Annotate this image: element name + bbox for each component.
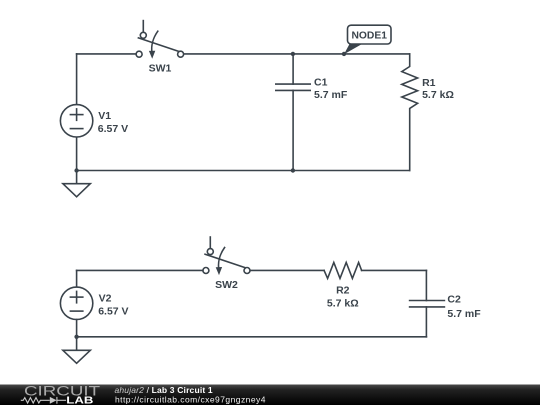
svg-text:V2: V2 bbox=[99, 292, 112, 304]
node junction dot ground 2 bbox=[74, 335, 78, 339]
wire: V2 bottom vertical bbox=[76, 320, 78, 351]
wire: top horizontal to SW2 bbox=[77, 269, 203, 271]
svg-text:R2: R2 bbox=[336, 284, 350, 296]
voltage source V1 bbox=[60, 105, 92, 137]
svg-text:C1: C1 bbox=[314, 76, 328, 88]
ground (circuit 2) bbox=[63, 350, 90, 363]
svg-text:NODE1: NODE1 bbox=[351, 31, 387, 42]
resistor R2 bbox=[324, 263, 362, 279]
capacitor C2 bbox=[410, 270, 445, 336]
svg-text:5.7 mF: 5.7 mF bbox=[447, 308, 481, 320]
wire: V1 top vertical bbox=[76, 54, 78, 105]
wire: SW1 to R1 top bbox=[184, 53, 410, 55]
svg-text:5.7 mF: 5.7 mF bbox=[314, 89, 348, 101]
switch SW2 bbox=[203, 237, 250, 275]
svg-text:R1: R1 bbox=[422, 77, 436, 89]
node junction dot C1 bottom bbox=[291, 168, 295, 172]
wire: top-left horizontal to SW1 bbox=[77, 53, 136, 55]
wire: R2 to C2 corner bbox=[362, 269, 427, 271]
wire: V1 bottom vertical bbox=[76, 137, 78, 183]
ground (circuit 1) bbox=[63, 184, 90, 197]
svg-text:SW2: SW2 bbox=[215, 279, 238, 291]
svg-text:http://circuitlab.com/cxe97gng: http://circuitlab.com/cxe97gngzney4 bbox=[115, 394, 266, 404]
node A dot under NODE1 bbox=[342, 52, 346, 56]
svg-text:5.7 kΩ: 5.7 kΩ bbox=[327, 298, 359, 310]
node junction dot ground 1 bbox=[74, 168, 78, 172]
wire: SW2 to R2 bbox=[250, 269, 324, 271]
voltage source V2 bbox=[60, 287, 92, 319]
svg-text:C2: C2 bbox=[447, 294, 461, 306]
wire: bottom of circuit 1 bbox=[77, 170, 410, 172]
switch SW1 bbox=[136, 21, 184, 59]
svg-text:5.7 kΩ: 5.7 kΩ bbox=[422, 89, 454, 101]
capacitor C1 bbox=[276, 54, 310, 171]
svg-text:6.57 V: 6.57 V bbox=[98, 305, 128, 317]
logo resistor-diode glyph bbox=[21, 397, 66, 404]
resistor R1 bbox=[402, 54, 418, 171]
wire: bottom of circuit 2 bbox=[77, 336, 427, 338]
wire: V2 top vertical bbox=[76, 270, 78, 287]
node junction dot C1 top bbox=[291, 52, 295, 56]
svg-text:SW1: SW1 bbox=[149, 63, 172, 75]
svg-text:6.57 V: 6.57 V bbox=[98, 123, 128, 135]
node NODE1 flag bbox=[344, 25, 391, 54]
svg-text:V1: V1 bbox=[98, 110, 111, 122]
svg-text:LAB: LAB bbox=[66, 395, 93, 405]
